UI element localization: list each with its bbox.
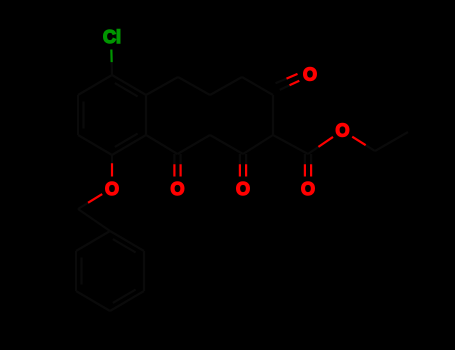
svg-text:O: O xyxy=(301,179,315,199)
svg-text:O: O xyxy=(335,121,349,141)
svg-text:Cl: Cl xyxy=(103,27,121,47)
svg-text:O: O xyxy=(170,179,184,199)
svg-text:O: O xyxy=(236,179,250,199)
svg-text:O: O xyxy=(303,65,317,85)
svg-text:O: O xyxy=(105,179,119,199)
